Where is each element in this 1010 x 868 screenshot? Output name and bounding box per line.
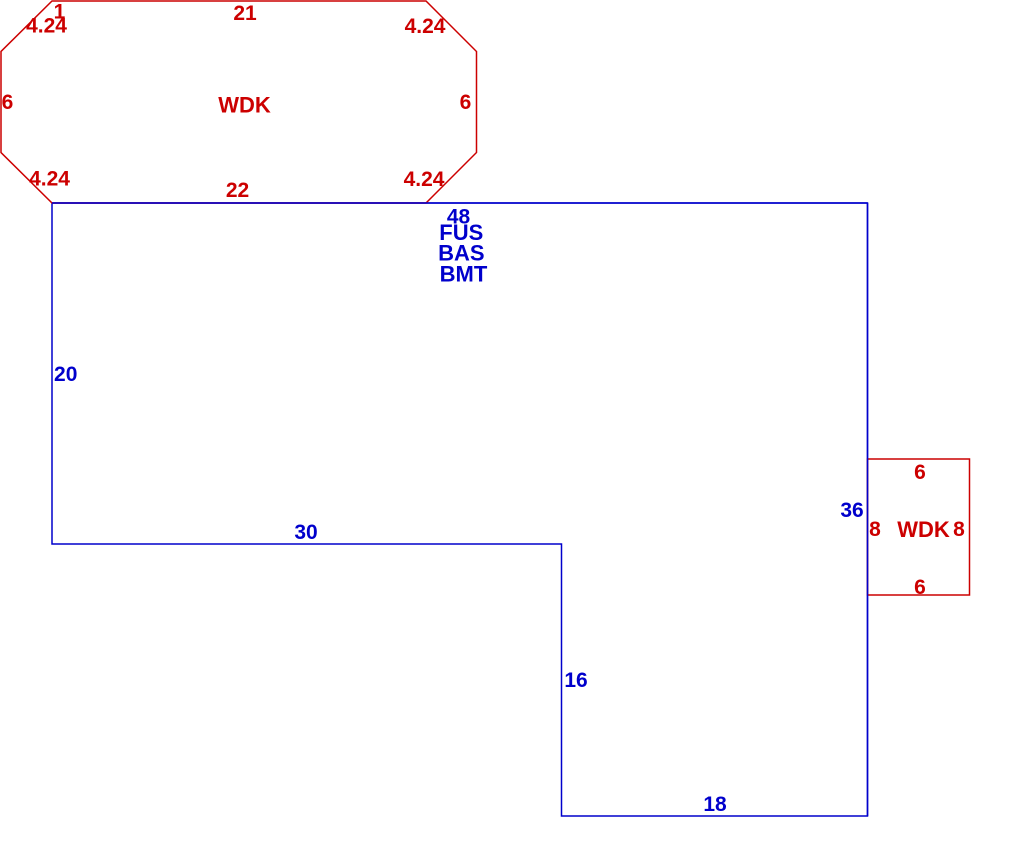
svg-text:16: 16 — [564, 669, 587, 692]
svg-text:4.24: 4.24 — [26, 15, 67, 38]
svg-text:20: 20 — [54, 363, 77, 386]
svg-text:22: 22 — [226, 179, 249, 202]
svg-text:36: 36 — [840, 499, 863, 522]
svg-text:WDK: WDK — [218, 93, 271, 118]
svg-text:30: 30 — [294, 521, 317, 544]
svg-text:21: 21 — [233, 2, 257, 25]
svg-text:6: 6 — [914, 461, 926, 484]
svg-text:6: 6 — [2, 91, 14, 114]
svg-text:18: 18 — [703, 793, 727, 816]
svg-text:4.24: 4.24 — [404, 168, 445, 191]
svg-text:6: 6 — [914, 576, 926, 599]
svg-text:BMT: BMT — [440, 262, 488, 287]
svg-text:WDK: WDK — [897, 517, 950, 542]
svg-text:4.24: 4.24 — [29, 168, 70, 191]
svg-text:6: 6 — [460, 91, 472, 114]
svg-text:8: 8 — [869, 518, 881, 541]
svg-text:4.24: 4.24 — [405, 15, 446, 38]
svg-text:8: 8 — [953, 518, 965, 541]
